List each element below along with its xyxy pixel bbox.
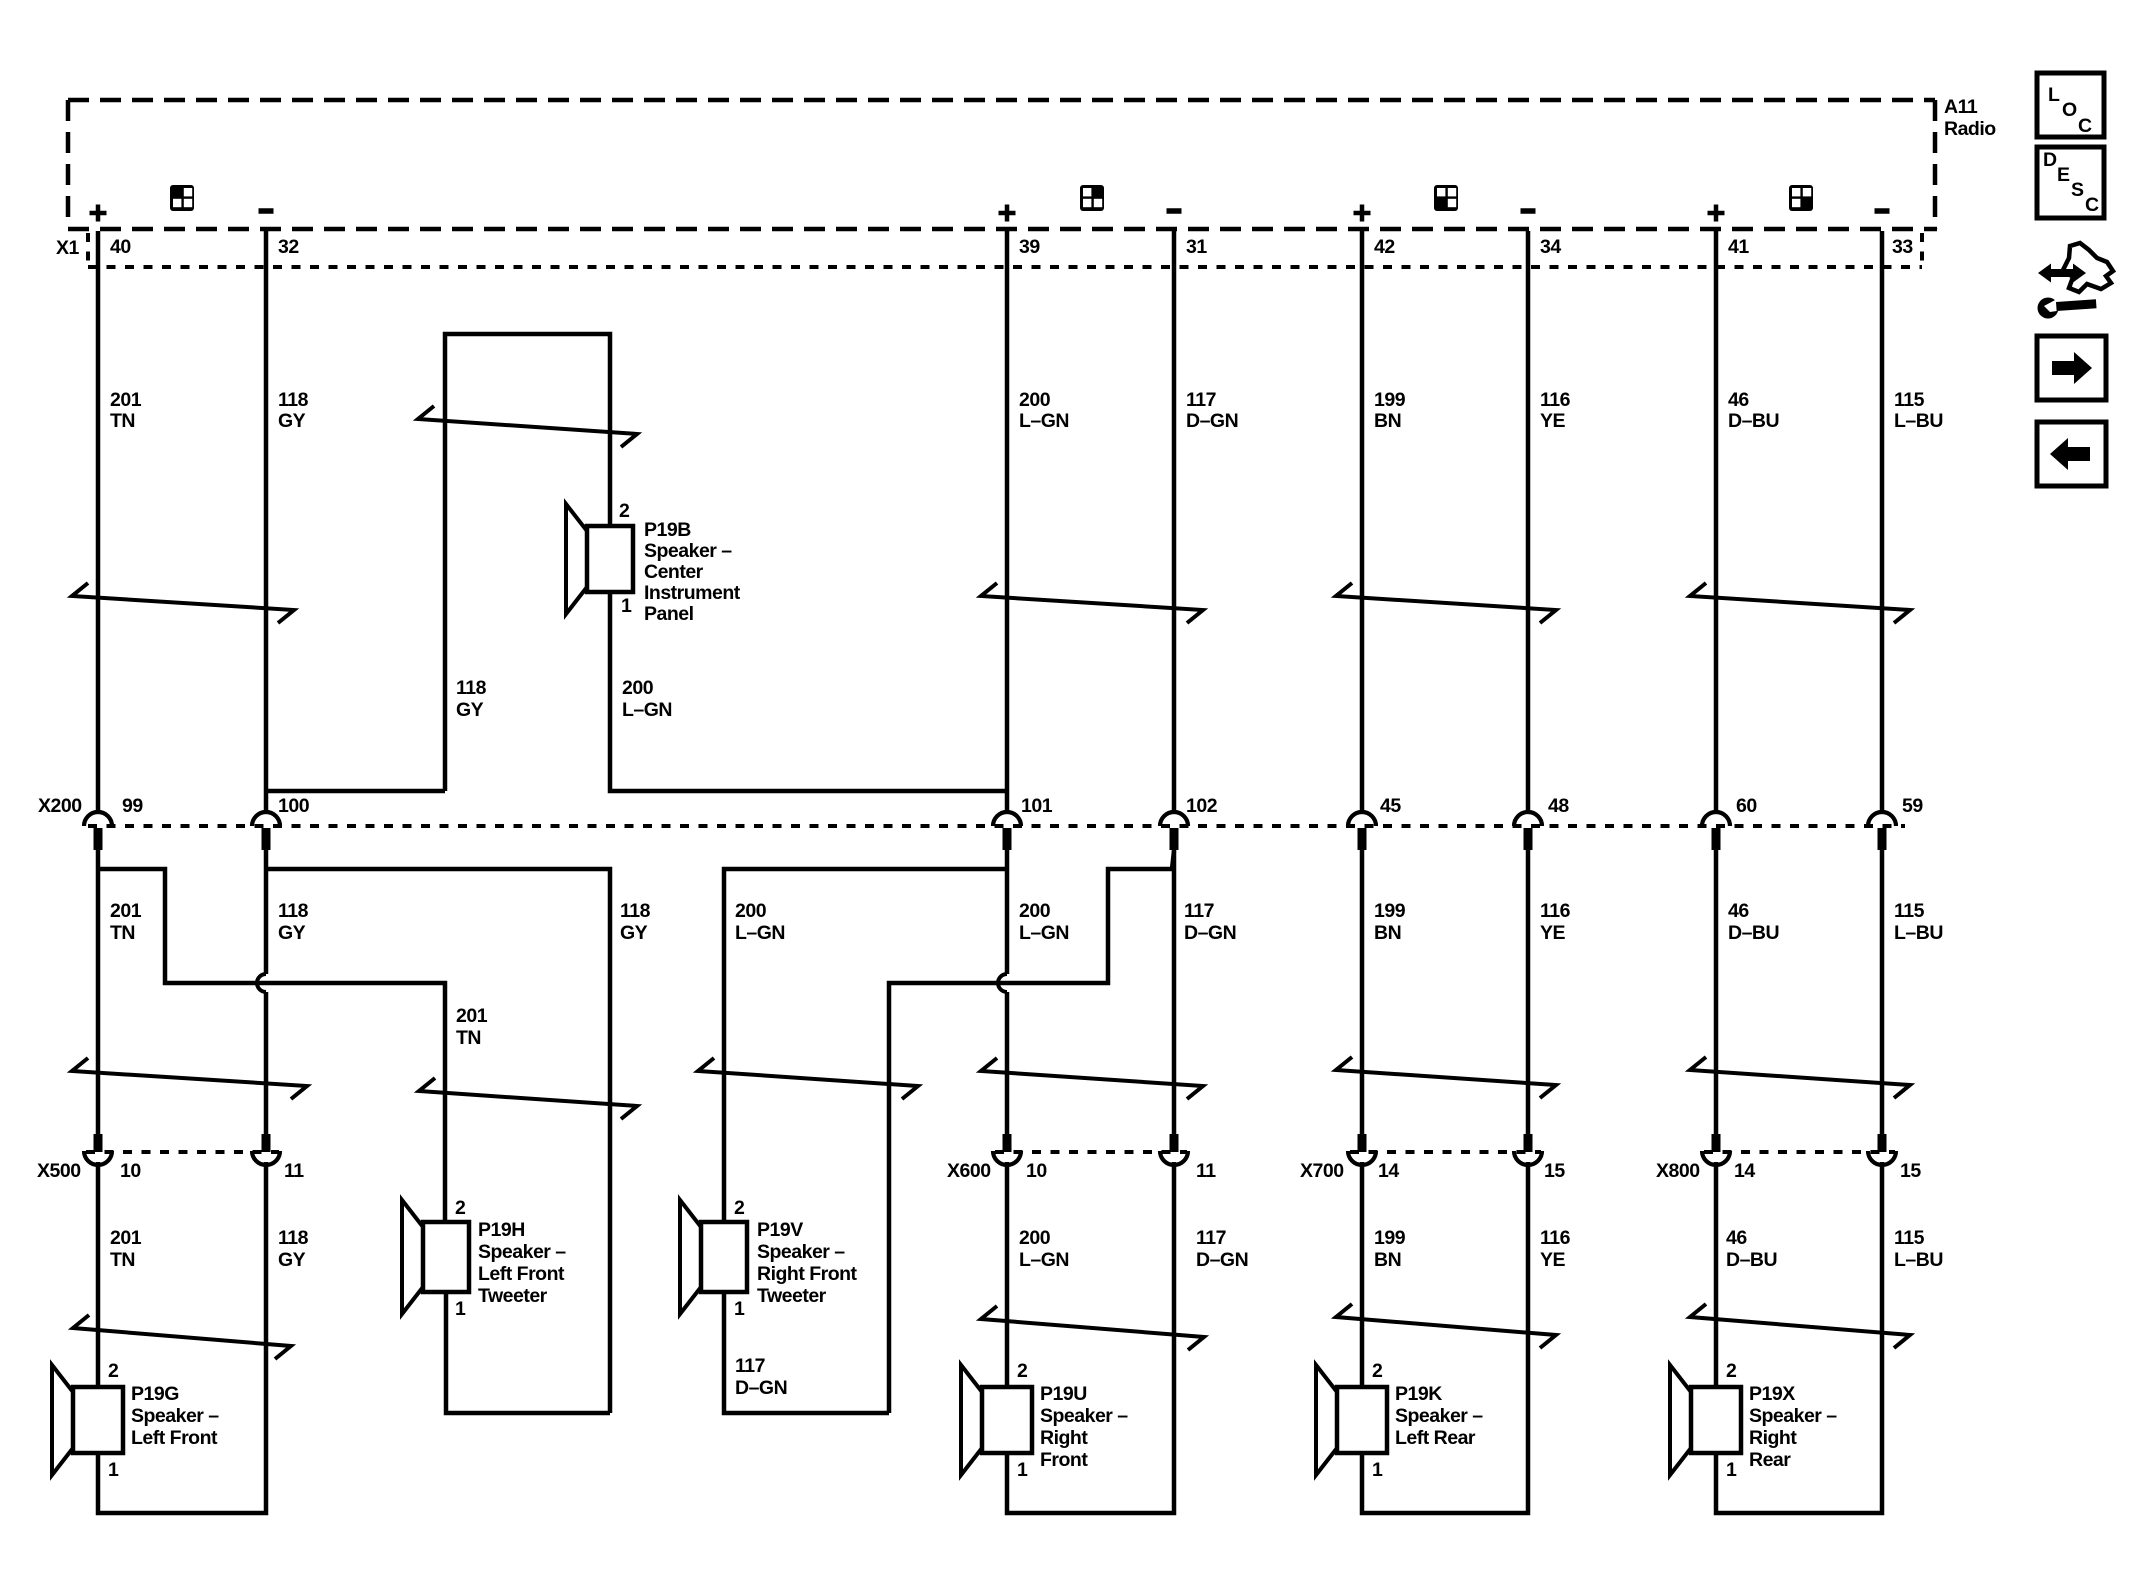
connector X200 terminal 102: [1160, 812, 1188, 826]
connector X600 terminal 11: [1170, 1134, 1179, 1152]
svg-text:P19G: P19G: [131, 1383, 179, 1405]
svg-text:1: 1: [455, 1298, 466, 1320]
speaker P19H symbol: [423, 1222, 469, 1292]
connector X700 dotted line: [1350, 1150, 1541, 1154]
svg-text:10: 10: [120, 1160, 141, 1182]
connector X200 dotted line: [88, 824, 1905, 828]
svg-text:46: 46: [1726, 1227, 1747, 1249]
wire 117 D-GN from X200-102 to X600-11: [1172, 850, 1177, 1134]
svg-text:33: 33: [1892, 236, 1913, 258]
wire 46 D-BU from X200-60 to X800-14: [1714, 850, 1719, 1134]
svg-text:201: 201: [110, 900, 142, 922]
svg-text:199: 199: [1374, 900, 1406, 922]
svg-text:Radio: Radio: [1944, 118, 1996, 140]
svg-text:102: 102: [1186, 795, 1218, 817]
svg-text:15: 15: [1900, 1160, 1921, 1182]
radio A11 dashed box outline: [68, 100, 1937, 229]
svg-text:1: 1: [1372, 1459, 1383, 1481]
svg-text:32: 32: [278, 236, 299, 258]
svg-text:41: 41: [1728, 236, 1749, 258]
wire P19G pin1 loop to return wire: [98, 1162, 266, 1513]
svg-text:118: 118: [456, 677, 487, 699]
svg-text:X1: X1: [56, 237, 80, 259]
svg-text:200: 200: [1019, 1227, 1051, 1249]
svg-text:1: 1: [1017, 1459, 1028, 1481]
svg-text:Left Front: Left Front: [131, 1427, 218, 1449]
svg-text:Left Rear: Left Rear: [1395, 1427, 1476, 1449]
svg-text:Tweeter: Tweeter: [757, 1285, 827, 1307]
speaker position icon right front: [1080, 185, 1104, 211]
svg-text:10: 10: [1026, 1160, 1047, 1182]
svg-text:A11: A11: [1944, 96, 1978, 118]
svg-text:60: 60: [1736, 795, 1757, 817]
svg-text:P19K: P19K: [1395, 1383, 1442, 1405]
svg-text:BN: BN: [1374, 922, 1401, 944]
wire 200 L-GN from X1 to X200: [1005, 231, 1010, 813]
svg-text:L–GN: L–GN: [1019, 922, 1069, 944]
twisted pair symbol P19V branch middle: [698, 1058, 918, 1099]
svg-text:L–GN: L–GN: [735, 922, 785, 944]
svg-text:46: 46: [1728, 389, 1749, 411]
svg-text:45: 45: [1380, 795, 1401, 817]
svg-text:Right Front: Right Front: [757, 1263, 858, 1285]
twisted pair symbol circuit 46/115 top: [1690, 583, 1910, 623]
connector X500 terminal 11: [262, 1134, 271, 1152]
wire 115 L-BU from X1 to X200: [1880, 231, 1885, 813]
svg-text:Speaker –: Speaker –: [644, 540, 732, 562]
svg-text:1: 1: [734, 1298, 745, 1320]
twisted pair symbol 199/116 middle: [1336, 1057, 1556, 1098]
svg-text:Instrument: Instrument: [644, 582, 741, 604]
svg-text:115: 115: [1894, 1227, 1925, 1249]
wire P19U pin2 feed: [1005, 1162, 1010, 1387]
svg-text:X500: X500: [37, 1160, 81, 1182]
svg-text:D–BU: D–BU: [1728, 922, 1779, 944]
connector X200 terminal 48: [1514, 812, 1542, 826]
wire 46 D-BU from X1 to X200: [1714, 231, 1719, 813]
twisted pair symbol 46/115 middle: [1690, 1057, 1910, 1098]
svg-text:Speaker –: Speaker –: [757, 1241, 845, 1263]
speaker position icon left rear: [1434, 185, 1458, 211]
svg-text:GY: GY: [620, 922, 648, 944]
connector X500 terminal 10: [94, 1134, 103, 1152]
svg-text:118: 118: [278, 900, 309, 922]
minus sign pair 3: [1521, 208, 1536, 214]
svg-text:Right: Right: [1749, 1427, 1797, 1449]
speaker P19B symbol: [587, 526, 633, 592]
wire 117 D-GN from X1 to X200: [1172, 231, 1177, 813]
connector X600 dotted line: [995, 1150, 1187, 1154]
svg-text:L–BU: L–BU: [1894, 410, 1943, 432]
svg-text:L–GN: L–GN: [1019, 410, 1069, 432]
svg-text:201: 201: [456, 1005, 488, 1027]
connector X1 left wall: [86, 233, 90, 263]
twisted pair symbol 199/116 bottom: [1336, 1304, 1556, 1348]
speaker position icon right rear: [1789, 185, 1813, 211]
svg-text:118: 118: [620, 900, 651, 922]
wire 118 GY from X200-100 to X500-11 (hop at crossing): [264, 850, 269, 974]
svg-text:D–GN: D–GN: [735, 1377, 787, 1399]
icon outline pointer shape: [2063, 243, 2113, 292]
svg-text:1: 1: [621, 595, 632, 617]
svg-text:D–GN: D–GN: [1196, 1249, 1248, 1271]
svg-text:D–GN: D–GN: [1186, 410, 1238, 432]
svg-text:15: 15: [1544, 1160, 1565, 1182]
connector X200 terminal 101: [993, 812, 1021, 826]
svg-text:200: 200: [735, 900, 767, 922]
wire 115 L-BU from X200-59 to X800-15: [1880, 850, 1885, 1134]
svg-text:1: 1: [108, 1459, 119, 1481]
svg-text:L–GN: L–GN: [622, 699, 672, 721]
minus sign pair 1: [259, 208, 274, 214]
svg-text:59: 59: [1902, 795, 1923, 817]
svg-text:GY: GY: [456, 699, 484, 721]
svg-text:201: 201: [110, 389, 142, 411]
connector X200 terminal 100: [252, 812, 280, 826]
svg-text:Left Front: Left Front: [478, 1263, 565, 1285]
connector X1 right wall: [1920, 233, 1924, 263]
svg-text:Speaker –: Speaker –: [131, 1405, 219, 1427]
svg-text:117: 117: [1196, 1227, 1226, 1249]
svg-text:GY: GY: [278, 410, 306, 432]
svg-text:115: 115: [1894, 389, 1925, 411]
svg-text:X200: X200: [38, 795, 82, 817]
plus sign pair 4: [1708, 205, 1725, 222]
icon box arrow left: [2037, 422, 2106, 486]
svg-text:116: 116: [1540, 900, 1571, 922]
svg-text:Center: Center: [644, 561, 704, 583]
svg-text:199: 199: [1374, 1227, 1406, 1249]
svg-text:2: 2: [1372, 1360, 1383, 1382]
wire 199 BN from X1 to X200: [1360, 231, 1365, 813]
svg-text:X700: X700: [1300, 1160, 1344, 1182]
twisted pair symbol circuit 201/118 top: [72, 583, 294, 623]
speaker P19X symbol: [1691, 1387, 1741, 1453]
plus sign pair 2: [999, 205, 1016, 222]
wire P19B branch up-over-down: [445, 334, 610, 791]
svg-text:L–BU: L–BU: [1894, 1249, 1943, 1271]
svg-text:Right: Right: [1040, 1427, 1088, 1449]
wire 118 GY from X1 to X200: [264, 231, 269, 813]
connector X500 dotted line: [86, 1150, 279, 1154]
wire 201 TN from X200-99 to X500-10: [96, 850, 101, 1134]
wire P19H pin1 loop bottom: [446, 1292, 610, 1413]
svg-text:2: 2: [619, 500, 630, 522]
svg-text:P19V: P19V: [757, 1219, 803, 1241]
svg-text:2: 2: [734, 1197, 745, 1219]
connector X200 terminal 59: [1868, 812, 1896, 826]
twisted pair symbol P19B branch: [418, 406, 637, 447]
connector X200 terminal 99: [84, 812, 112, 826]
wire P19K pin1 loop to return wire: [1362, 1162, 1528, 1513]
twisted pair symbol P19H branch middle: [419, 1078, 637, 1119]
wire 200 L-GN from X200-101 to X600-10 (hop at crossing): [1005, 850, 1010, 974]
connector X700 terminal 15: [1524, 1134, 1533, 1152]
wire 118 GY jog at y791 to P19B branch: [266, 789, 445, 794]
svg-text:Front: Front: [1040, 1449, 1088, 1471]
wire P19U pin1 loop to return wire: [1007, 1162, 1174, 1513]
connector X1 dotted line: [88, 265, 1922, 269]
svg-text:2: 2: [1017, 1360, 1028, 1382]
svg-text:O: O: [2062, 99, 2077, 121]
svg-text:Speaker –: Speaker –: [478, 1241, 566, 1263]
svg-text:201: 201: [110, 1227, 142, 1249]
twisted pair symbol 200/117 bottom: [981, 1306, 1204, 1350]
icon box arrow right: [2037, 336, 2106, 400]
svg-text:Rear: Rear: [1749, 1449, 1791, 1471]
wire 117 D-GN from P19V pin1 to X200-102 column: [724, 851, 1174, 1413]
svg-text:YE: YE: [1540, 922, 1566, 944]
svg-text:48: 48: [1548, 795, 1569, 817]
svg-text:34: 34: [1540, 236, 1561, 258]
wire 201 TN branch to P19H pin2: [98, 869, 445, 1222]
speaker position icon left front: [170, 185, 194, 211]
svg-text:200: 200: [622, 677, 654, 699]
svg-text:14: 14: [1734, 1160, 1755, 1182]
svg-text:TN: TN: [456, 1027, 481, 1049]
wire P19G pin2 feed: [96, 1162, 101, 1387]
connector X600 terminal 10: [1003, 1134, 1012, 1152]
svg-text:Tweeter: Tweeter: [478, 1285, 548, 1307]
connector X200 terminal 60: [1702, 812, 1730, 826]
icon box DESC: [2037, 147, 2104, 218]
svg-text:2: 2: [1726, 1360, 1737, 1382]
minus sign pair 2: [1167, 208, 1182, 214]
svg-text:46: 46: [1728, 900, 1749, 922]
svg-text:C: C: [2085, 194, 2099, 216]
svg-text:Panel: Panel: [644, 603, 694, 625]
icon double-headed arrow: [2038, 264, 2086, 283]
connector X800 terminal 15: [1878, 1134, 1887, 1152]
svg-text:11: 11: [284, 1160, 304, 1182]
connector X200 terminal 45: [1348, 812, 1376, 826]
svg-text:P19H: P19H: [478, 1219, 525, 1241]
svg-text:117: 117: [1186, 389, 1216, 411]
wire 118 GY branch to P19H pin1 loop: [266, 869, 610, 1413]
svg-text:YE: YE: [1540, 410, 1566, 432]
svg-text:D: D: [2043, 149, 2057, 171]
speaker P19U symbol: [982, 1387, 1032, 1453]
twisted pair symbol circuit 199/116 top: [1336, 583, 1556, 623]
svg-text:199: 199: [1374, 389, 1406, 411]
plus sign pair 1: [90, 205, 107, 222]
svg-text:L: L: [2048, 84, 2060, 106]
wire 200 L-GN from P19B pin1 to pin39 column: [610, 592, 1007, 791]
wire 116 YE from X1 to X200: [1526, 231, 1531, 813]
svg-text:2: 2: [108, 1360, 119, 1382]
svg-text:40: 40: [110, 236, 131, 258]
connector X800 dotted line: [1704, 1150, 1895, 1154]
svg-text:TN: TN: [110, 922, 135, 944]
svg-text:14: 14: [1378, 1160, 1399, 1182]
svg-text:116: 116: [1540, 1227, 1571, 1249]
wire 200 L-GN branch to P19V pin2: [724, 869, 1007, 1222]
svg-text:L–BU: L–BU: [1894, 922, 1943, 944]
svg-text:X600: X600: [947, 1160, 991, 1182]
speaker P19V symbol: [701, 1222, 747, 1292]
svg-text:Speaker –: Speaker –: [1395, 1405, 1483, 1427]
svg-text:X800: X800: [1656, 1160, 1700, 1182]
svg-text:100: 100: [278, 795, 310, 817]
speaker P19G symbol: [73, 1387, 123, 1453]
svg-text:200: 200: [1019, 389, 1051, 411]
svg-text:117: 117: [1184, 900, 1214, 922]
svg-text:39: 39: [1019, 236, 1040, 258]
svg-text:S: S: [2071, 179, 2084, 201]
svg-text:TN: TN: [110, 410, 135, 432]
svg-text:200: 200: [1019, 900, 1051, 922]
wire P19K pin2 feed: [1360, 1162, 1365, 1387]
svg-text:117: 117: [735, 1355, 765, 1377]
svg-text:115: 115: [1894, 900, 1925, 922]
svg-text:118: 118: [278, 389, 309, 411]
svg-text:D–BU: D–BU: [1728, 410, 1779, 432]
svg-text:101: 101: [1021, 795, 1053, 817]
svg-text:1: 1: [1726, 1459, 1737, 1481]
wire 199 BN from X200-45 to X700-14: [1360, 850, 1365, 1134]
svg-text:P19B: P19B: [644, 519, 691, 541]
wire 116 YE from X200-48 to X700-15: [1526, 850, 1531, 1134]
twisted pair symbol 201/118 bottom: [73, 1315, 291, 1359]
connector X700 terminal 14: [1358, 1134, 1367, 1152]
svg-text:Speaker –: Speaker –: [1749, 1405, 1837, 1427]
svg-text:BN: BN: [1374, 1249, 1401, 1271]
icon wrench: [2038, 298, 2059, 319]
icon box LOC: [2037, 73, 2104, 137]
svg-text:D–GN: D–GN: [1184, 922, 1236, 944]
svg-text:C: C: [2078, 115, 2092, 137]
svg-text:GY: GY: [278, 922, 306, 944]
speaker P19K symbol: [1337, 1387, 1387, 1453]
svg-text:31: 31: [1186, 236, 1207, 258]
svg-text:Speaker –: Speaker –: [1040, 1405, 1128, 1427]
svg-text:TN: TN: [110, 1249, 135, 1271]
svg-text:42: 42: [1374, 236, 1395, 258]
connector X800 terminal 14: [1712, 1134, 1721, 1152]
twisted pair symbol 46/115 bottom: [1690, 1304, 1910, 1348]
svg-text:99: 99: [122, 795, 143, 817]
wire P19X pin2 feed: [1714, 1162, 1719, 1387]
svg-text:GY: GY: [278, 1249, 306, 1271]
svg-text:116: 116: [1540, 389, 1571, 411]
svg-text:2: 2: [455, 1197, 466, 1219]
twisted pair symbol 200/117 middle: [981, 1058, 1203, 1099]
svg-text:118: 118: [278, 1227, 309, 1249]
wire P19X pin1 loop to return wire: [1716, 1162, 1882, 1513]
svg-text:BN: BN: [1374, 410, 1401, 432]
svg-text:L–GN: L–GN: [1019, 1249, 1069, 1271]
svg-text:YE: YE: [1540, 1249, 1566, 1271]
svg-text:11: 11: [1196, 1160, 1216, 1182]
plus sign pair 3: [1354, 205, 1371, 222]
minus sign pair 4: [1875, 208, 1890, 214]
svg-text:P19U: P19U: [1040, 1383, 1087, 1405]
svg-text:E: E: [2057, 164, 2070, 186]
twisted pair symbol 201/118 middle: [72, 1058, 307, 1099]
svg-text:D–BU: D–BU: [1726, 1249, 1777, 1271]
twisted pair symbol circuit 200/117 top: [981, 583, 1203, 623]
svg-text:P19X: P19X: [1749, 1383, 1795, 1405]
wire 201 TN from X1 to X200: [96, 231, 101, 813]
